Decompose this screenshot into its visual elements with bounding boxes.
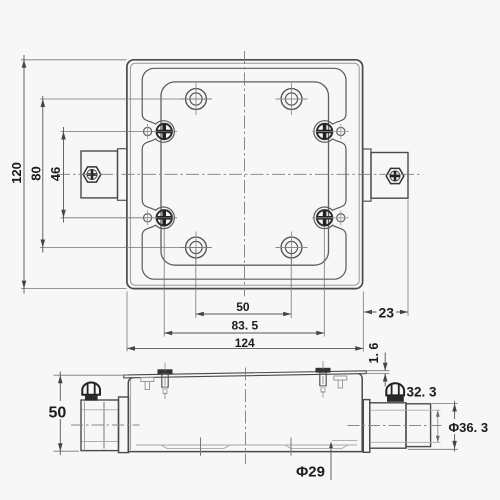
dimension 1.6 [367, 343, 390, 387]
svg-text:83. 5: 83. 5 [232, 319, 259, 333]
cover screw lower-left [157, 210, 172, 225]
hidden screw left (side view, light) [141, 378, 154, 390]
boss bottom-right [276, 232, 308, 264]
dimension phi 29 [296, 442, 333, 481]
cover screw right (side view, dark) [316, 361, 331, 398]
dimension 120 [9, 55, 127, 294]
bore dimension arrows (right connector) [436, 410, 440, 442]
left connector flange (top view) [118, 149, 128, 201]
svg-text:124: 124 [235, 336, 255, 350]
label 32.3 [407, 385, 438, 400]
cover screw lower-right [317, 210, 332, 225]
left connector cylinder (side view) [81, 400, 119, 451]
dimension 83.5 [164, 227, 324, 337]
cover screw upper-left [157, 124, 172, 139]
horizontal centerline (top view) [57, 173, 423, 175]
dimension phi 36.3 [408, 401, 492, 452]
side view vertical centerline [245, 368, 247, 465]
left connector flange ring (side view) [119, 397, 129, 453]
body outline (side view) [128, 374, 362, 452]
dimension 50 (side view) [47, 372, 128, 456]
svg-text:1. 6: 1. 6 [367, 343, 381, 364]
right connector bolt head [386, 383, 404, 395]
left connector clamp screw (hex with cross) [83, 167, 101, 182]
svg-text:120: 120 [9, 162, 24, 184]
right connector socket end (side view) [371, 404, 441, 447]
right connector centerline [348, 425, 445, 427]
svg-text:80: 80 [29, 166, 44, 180]
box outer outline [127, 60, 363, 289]
right connector body (top view) [371, 153, 408, 199]
left connector bolt head [82, 383, 100, 395]
boss bottom-left [180, 232, 212, 264]
dimension 46 [48, 127, 177, 223]
cover scalloped outline [142, 68, 346, 279]
small hole lower-right [312, 210, 349, 225]
right connector nut (dark) [387, 396, 404, 402]
right connector flange (top view) [363, 149, 371, 201]
svg-text:Φ29: Φ29 [296, 464, 325, 481]
right connector clamp screw (hex with cross) [386, 168, 404, 183]
svg-text:50: 50 [49, 405, 67, 422]
svg-text:50: 50 [236, 300, 250, 314]
dimension 23 [364, 200, 408, 321]
left connector nut (dark) [85, 395, 98, 401]
cover recess rounded rectangle [161, 82, 329, 265]
small hole upper-right [312, 124, 349, 139]
cover screw left (side view, dark) [158, 363, 173, 400]
vertical centerline (top view) [244, 51, 246, 297]
right connector clamp body (side view) [370, 403, 406, 448]
dimension 50 (top view bottom) [196, 249, 291, 318]
left connector centerline [71, 424, 140, 426]
cover screw upper-right [317, 124, 332, 139]
boss top-right [276, 83, 308, 115]
svg-text:46: 46 [48, 167, 63, 181]
dimension 124 [127, 292, 363, 352]
svg-text:Φ36. 3: Φ36. 3 [449, 420, 489, 435]
body top lip plate [124, 371, 366, 378]
svg-text:23: 23 [379, 305, 395, 321]
hidden screw right (side view, light) [334, 376, 347, 388]
boss top-left [180, 83, 212, 115]
svg-text:32. 3: 32. 3 [407, 385, 438, 400]
left connector body (top view) [81, 151, 118, 198]
body bottom inner lines [136, 438, 358, 456]
small hole lower-left [144, 210, 152, 225]
small hole upper-left [144, 124, 152, 139]
dimension 80 [29, 96, 212, 253]
right connector flange ring (side view) [363, 400, 370, 453]
box inner wall line [130, 63, 359, 285]
